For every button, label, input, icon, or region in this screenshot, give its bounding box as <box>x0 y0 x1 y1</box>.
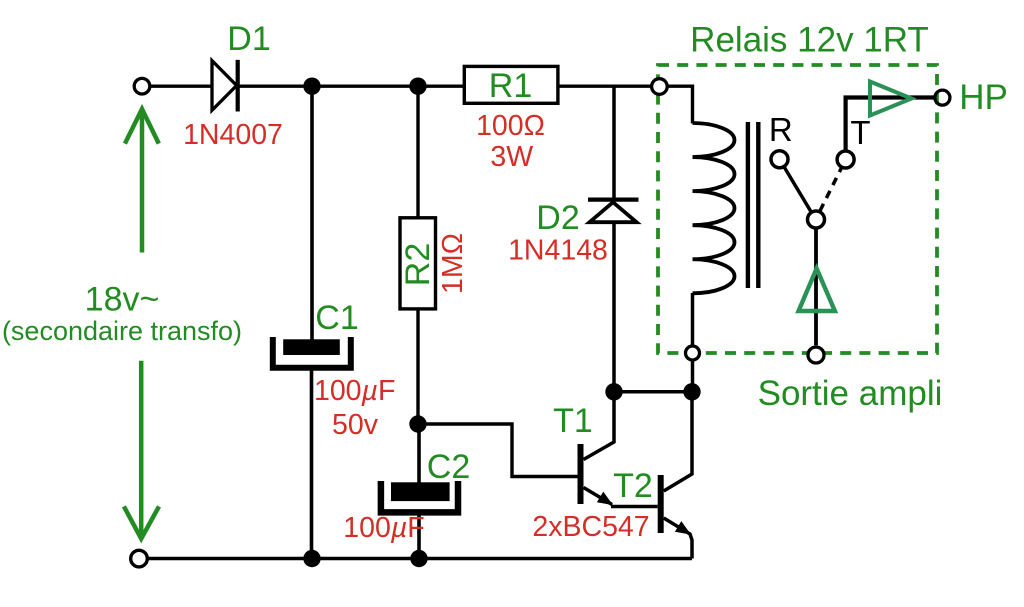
svg-text:1N4148: 1N4148 <box>508 235 608 267</box>
arrow down (18v input) <box>124 361 159 539</box>
diode D1 <box>212 60 238 112</box>
wire T2 collector <box>664 392 692 491</box>
terminal relay left <box>652 79 668 95</box>
transistor T1 <box>578 444 614 505</box>
svg-text:100µF: 100µF <box>314 375 395 407</box>
sortie amp triangle <box>799 269 835 312</box>
node dot R2 bottom <box>409 415 426 432</box>
contact T circle <box>837 151 854 168</box>
svg-text:18v~: 18v~ <box>85 281 160 319</box>
svg-text:R2: R2 <box>399 243 437 286</box>
wire T1 emitter to T2 base <box>611 505 658 509</box>
contact common circle <box>808 211 825 228</box>
svg-text:2xBC547: 2xBC547 <box>532 511 649 543</box>
capacitor C1 <box>273 337 351 368</box>
svg-text:100Ω: 100Ω <box>476 110 545 142</box>
wire top rail + coil top lead <box>150 86 693 123</box>
svg-text:T1: T1 <box>553 402 593 440</box>
wire C1 branch bottom <box>310 368 314 559</box>
wire T contact to HP <box>846 98 935 151</box>
wire C1 branch top <box>310 86 314 341</box>
wire C2 top lead <box>417 424 421 485</box>
resistor R1 <box>464 66 558 103</box>
node dot top R2 <box>409 78 426 95</box>
svg-text:C1: C1 <box>315 299 358 337</box>
node dot coil-T2 <box>683 383 700 400</box>
svg-text:D2: D2 <box>536 199 579 237</box>
switch lever solid (common to R) <box>784 167 810 211</box>
svg-text:(secondaire transfo): (secondaire transfo) <box>2 316 242 346</box>
HP amp triangle <box>870 82 912 116</box>
contact R circle <box>771 151 788 168</box>
wire coil terminal to node <box>691 360 695 392</box>
relay core <box>748 122 758 288</box>
svg-text:T2: T2 <box>613 467 653 505</box>
resistor R2 <box>400 218 436 309</box>
node dot D2-T1 <box>605 383 622 400</box>
svg-text:100µF: 100µF <box>343 512 424 544</box>
capacitor C2 <box>381 481 458 512</box>
relay box (dashed) <box>658 65 937 353</box>
wire coil bottom lead <box>691 293 695 346</box>
svg-text:R: R <box>769 111 793 148</box>
wire node to node horizontal <box>614 390 692 394</box>
svg-text:D1: D1 <box>227 20 270 58</box>
wire R2 branch top <box>416 86 419 219</box>
svg-text:Relais 12v 1RT: Relais 12v 1RT <box>690 21 929 60</box>
terminal sortie ampli <box>808 347 824 363</box>
wire T2 emitter <box>664 518 692 559</box>
wire common to sortie <box>814 229 818 345</box>
wire T1 emitter <box>584 488 613 505</box>
arrow up (18v input) <box>125 109 159 253</box>
svg-text:50v: 50v <box>332 409 379 441</box>
svg-text:Sortie ampli: Sortie ampli <box>758 374 943 413</box>
terminal input bottom <box>131 550 148 567</box>
terminal input top <box>134 78 150 94</box>
svg-text:1N4007: 1N4007 <box>183 119 283 151</box>
wire bottom rail <box>147 557 693 561</box>
wire T1 collector <box>584 392 615 460</box>
svg-text:3W: 3W <box>490 141 533 173</box>
svg-text:C2: C2 <box>427 448 470 486</box>
terminal coil bottom <box>686 346 700 360</box>
terminal HP <box>935 90 950 105</box>
diode D2 <box>588 200 639 223</box>
wire R2 branch bottom <box>416 308 419 425</box>
wire D2 to node <box>612 221 616 392</box>
relay coil <box>693 123 735 293</box>
node dot top-left <box>303 78 320 95</box>
switch lever dashed (common to T) <box>820 168 842 211</box>
svg-text:T: T <box>850 114 870 151</box>
wire D2 branch <box>612 86 616 198</box>
wire C2 bottom lead <box>417 513 421 559</box>
svg-text:R1: R1 <box>489 67 532 105</box>
transistor T2 <box>658 475 691 535</box>
node dot bottom C1 <box>303 550 320 567</box>
svg-text:1MΩ: 1MΩ <box>437 233 469 294</box>
node dot bottom C2 <box>410 550 427 567</box>
wire R2 junction to T1 base <box>418 424 578 477</box>
svg-text:HP: HP <box>959 78 1008 117</box>
